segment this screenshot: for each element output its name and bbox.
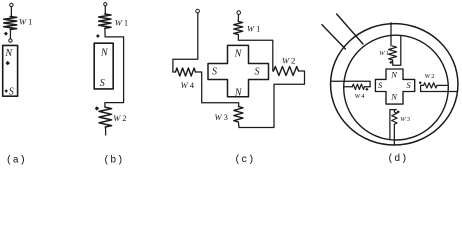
dot marker at W4 (d) bbox=[365, 88, 368, 91]
wire bbox=[104, 6, 106, 14]
wire bbox=[104, 28, 106, 37]
svg-text:N: N bbox=[4, 48, 13, 59]
svg-text:N: N bbox=[234, 48, 243, 59]
hook and lower return line to outer ring (d) bbox=[421, 85, 458, 91]
wire bbox=[10, 7, 12, 17]
svg-text:W3: W3 bbox=[400, 116, 410, 123]
dot marker below N (a) bbox=[6, 61, 10, 65]
wire ring-top to W1 (d) bbox=[390, 23, 392, 46]
wire bbox=[105, 127, 107, 135]
svg-text:N: N bbox=[100, 47, 109, 58]
terminal bottom of W1 (a) bbox=[9, 39, 12, 42]
wire hook below W1 and return to inner ring (d) bbox=[393, 36, 401, 65]
resistor W4 with lead to inner ring (d) bbox=[344, 86, 352, 88]
lead wire 2 (d) bbox=[322, 25, 346, 49]
terminal top of W1 (a) bbox=[10, 3, 13, 6]
resistor W1 (b) bbox=[99, 14, 111, 28]
dot marker at W2 upper lead (b) bbox=[95, 106, 99, 110]
svg-text:N: N bbox=[390, 91, 398, 101]
svg-text:S: S bbox=[378, 80, 383, 90]
svg-text:W2: W2 bbox=[425, 73, 435, 80]
cross magnet core (d) bbox=[375, 69, 414, 104]
upper line from outer ring with hook (d) bbox=[331, 81, 370, 87]
svg-text:W4: W4 bbox=[355, 93, 366, 100]
dot marker at W1 lower lead (b) bbox=[96, 34, 100, 38]
outer ring (d) bbox=[331, 24, 458, 145]
svg-text:N: N bbox=[234, 88, 243, 99]
dot marker at W1 (d) bbox=[389, 61, 392, 64]
svg-text:S: S bbox=[9, 86, 14, 97]
dot marker at W1 lower lead (a) bbox=[4, 32, 8, 36]
inner ring (d) bbox=[344, 35, 449, 140]
svg-text:(a): (a) bbox=[6, 155, 26, 167]
svg-text:W2: W2 bbox=[113, 113, 126, 123]
resistor W3 with lead to outer ring (d) bbox=[393, 110, 395, 112]
svg-text:S: S bbox=[406, 80, 411, 90]
cross magnet core (c) bbox=[208, 45, 269, 96]
svg-text:W1: W1 bbox=[19, 17, 32, 27]
wire right bypass (b) bbox=[105, 37, 124, 107]
resistor W1 (d) bbox=[389, 46, 397, 60]
hook above W3 and left return line to inner ring (d) bbox=[390, 110, 396, 140]
svg-text:W3: W3 bbox=[215, 112, 228, 122]
svg-text:(d): (d) bbox=[388, 153, 408, 165]
svg-text:(c): (c) bbox=[235, 154, 255, 166]
wire from terminal A to W4 (c) bbox=[173, 13, 198, 72]
magnet bar (a) bbox=[3, 45, 18, 96]
svg-text:W1: W1 bbox=[247, 23, 260, 33]
dot marker at W2 (d) bbox=[419, 81, 422, 84]
resistor W1 (c) bbox=[234, 21, 243, 34]
svg-text:N: N bbox=[390, 70, 398, 80]
dot marker left of S (a) bbox=[4, 89, 8, 93]
svg-text:(b): (b) bbox=[104, 155, 124, 167]
svg-text:S: S bbox=[255, 67, 260, 78]
svg-text:W2: W2 bbox=[282, 56, 295, 66]
wire W3 to W2 (c) bbox=[238, 71, 304, 128]
resistor W2 with lead to inner ring (d) bbox=[422, 84, 424, 86]
wire W4 to W3 (c) bbox=[196, 72, 239, 107]
terminal A (c) bbox=[196, 9, 200, 13]
terminal top of W1 (b) bbox=[104, 3, 107, 6]
resistor W4 zigzag body (c) bbox=[176, 68, 196, 76]
resistor W1 (a) bbox=[4, 17, 17, 30]
wire bbox=[9, 30, 11, 39]
terminal B (c) bbox=[237, 11, 241, 15]
svg-text:W1: W1 bbox=[379, 50, 389, 57]
resistor W4 (c) bbox=[173, 71, 176, 73]
dot marker at W3 (d) bbox=[397, 110, 400, 113]
svg-text:S: S bbox=[212, 67, 217, 78]
magnet bar (b) bbox=[94, 43, 113, 89]
svg-text:W1: W1 bbox=[115, 17, 128, 27]
wire bbox=[237, 14, 239, 21]
wire W2 to W1 (c) bbox=[238, 35, 273, 72]
resistor W2 (c) bbox=[274, 67, 299, 76]
svg-text:W4: W4 bbox=[181, 80, 195, 90]
resistor W2 (b) bbox=[99, 107, 112, 127]
svg-text:S: S bbox=[100, 78, 105, 89]
resistor W3 (c) bbox=[234, 107, 243, 123]
lead wire 1 (d) bbox=[337, 14, 363, 44]
